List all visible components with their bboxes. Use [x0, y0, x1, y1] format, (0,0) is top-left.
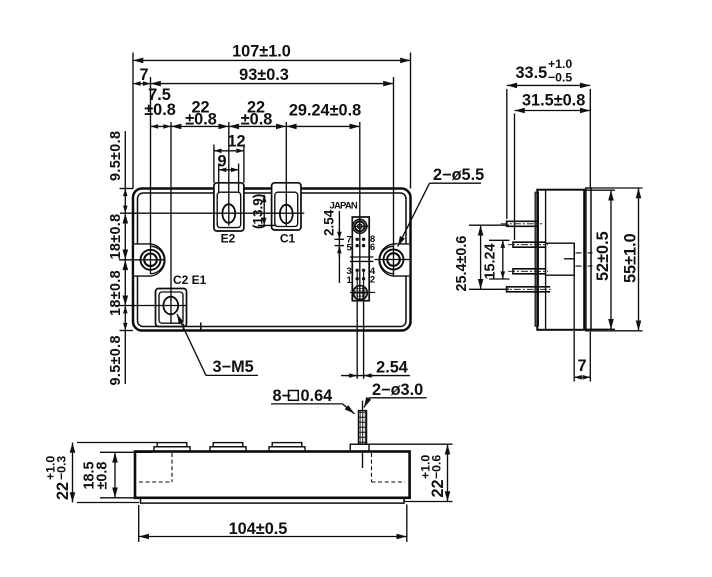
callout 2-dia3.0	[364, 381, 427, 408]
side view case inner wall	[545, 190, 547, 330]
side view pin row D	[501, 287, 552, 292]
svg-text:52±0.5: 52±0.5	[594, 231, 612, 281]
dim 33.5	[507, 57, 591, 219]
svg-text:2−ø3.0: 2−ø3.0	[372, 381, 423, 399]
dim 18.5	[82, 452, 153, 498]
svg-text:2.54: 2.54	[376, 359, 408, 377]
svg-text:107±1.0: 107±1.0	[232, 43, 291, 61]
side view pin row C	[508, 269, 548, 274]
dim 2.54 connector	[322, 209, 345, 283]
svg-text:9.5±0.8: 9.5±0.8	[108, 131, 124, 181]
svg-text:18±0.8: 18±0.8	[108, 270, 124, 316]
dim 9	[217, 153, 238, 193]
svg-text:55±1.0: 55±1.0	[622, 233, 640, 283]
dim 31.5	[515, 92, 591, 241]
connector separator lines	[350, 257, 374, 261]
connector pins dots	[356, 238, 366, 281]
svg-text:29.24±0.8: 29.24±0.8	[289, 102, 361, 120]
connector guide pin hole bottom	[350, 286, 375, 300]
svg-text:3−M5: 3−M5	[213, 358, 254, 376]
dim 107	[133, 43, 411, 61]
side view center dashes	[576, 253, 593, 266]
svg-text:25.4±0.6: 25.4±0.6	[454, 236, 470, 292]
connector housing front	[352, 217, 369, 301]
callout 2-dia5.5	[398, 166, 484, 247]
mounting boss left	[134, 244, 165, 276]
side view connector housing	[546, 243, 575, 275]
svg-text:C2 E1: C2 E1	[173, 273, 207, 287]
bottom view guide pin hatched	[358, 401, 366, 444]
svg-text:93±0.3: 93±0.3	[239, 66, 289, 84]
bottom view body	[135, 452, 410, 498]
side view pin row B	[508, 242, 548, 247]
svg-text:0.64: 0.64	[301, 387, 333, 405]
svg-text:5: 5	[347, 242, 353, 253]
screw center line E2 C1	[120, 212, 304, 214]
bottom view baseplate	[141, 498, 405, 503]
extension line hole right center	[393, 77, 395, 276]
svg-text:18±0.8: 18±0.8	[108, 213, 124, 259]
svg-text:6: 6	[370, 242, 375, 253]
pin numbers	[347, 234, 376, 286]
dim 55	[591, 188, 643, 331]
svg-text:±0.8: ±0.8	[144, 101, 176, 119]
front view module outline outer	[133, 189, 411, 331]
bottom view hidden insert left	[139, 453, 172, 482]
svg-text:−0.6: −0.6	[430, 455, 444, 479]
screw C1	[280, 205, 293, 224]
svg-text:33.5: 33.5	[516, 64, 548, 82]
dim 22 right	[369, 444, 453, 501]
dim 104	[139, 505, 407, 543]
dim 7 top left	[133, 66, 151, 84]
svg-text:2−ø5.5: 2−ø5.5	[433, 166, 484, 184]
dim 22 left	[44, 443, 158, 503]
svg-text:22: 22	[429, 479, 447, 497]
terminal E2	[214, 183, 244, 231]
extension line module left edge	[132, 53, 134, 189]
svg-text:C1: C1	[280, 232, 296, 246]
screw E2	[222, 204, 235, 223]
terminal C2 E1	[119, 289, 201, 331]
extension line connector center	[359, 122, 361, 300]
extension line module right edge	[410, 53, 412, 189]
dim chain left 9.5 18 18 9.5	[120, 131, 134, 384]
svg-text:15.24: 15.24	[483, 243, 499, 279]
mounting hole left	[119, 250, 165, 270]
svg-text:12: 12	[227, 133, 245, 151]
bottom view terminal bump 3	[269, 443, 305, 452]
svg-text:(13.9): (13.9)	[251, 194, 266, 229]
svg-text:±0.8: ±0.8	[95, 462, 111, 490]
bottom view pin header block	[350, 444, 369, 451]
svg-text:1: 1	[347, 275, 353, 286]
side view baseplate	[586, 188, 591, 331]
dim 7 side	[574, 331, 590, 382]
side view inner line right	[573, 243, 575, 329]
side view case lip	[535, 192, 538, 326]
dim 25.4	[454, 225, 509, 291]
extension line E2 center	[228, 122, 230, 226]
extension line C2E1 center	[170, 122, 172, 323]
side view pin row A	[501, 221, 542, 226]
svg-text:±0.8: ±0.8	[241, 110, 273, 128]
bottom view terminal bump 1	[154, 443, 190, 452]
svg-text:31.5±0.8: 31.5±0.8	[522, 92, 585, 110]
mounting hole right	[375, 250, 411, 270]
extension line hole left center	[150, 77, 152, 274]
pin extension lines below module	[357, 301, 363, 379]
extension line C1 center	[285, 122, 287, 226]
connector top rivet	[352, 219, 369, 233]
dim 12	[214, 133, 246, 183]
svg-text:22: 22	[54, 482, 72, 500]
terminal C1	[272, 183, 301, 230]
svg-text:−0.3: −0.3	[55, 456, 69, 480]
side view case	[537, 190, 584, 330]
bottom view terminal bump 2	[210, 443, 246, 452]
bottom view hidden insert right	[372, 453, 406, 482]
svg-text:9: 9	[217, 153, 226, 171]
svg-text:104±0.5: 104±0.5	[229, 520, 288, 538]
dim 15.24	[483, 240, 510, 279]
callout 3-M5	[177, 314, 258, 376]
svg-text:E2: E2	[221, 232, 236, 246]
mounting boss right	[379, 244, 409, 276]
dim 52	[585, 190, 615, 329]
svg-text:−0.5: −0.5	[548, 71, 572, 85]
front view module outline inner	[138, 193, 407, 327]
svg-text:7: 7	[139, 66, 148, 84]
svg-text:9.5±0.8: 9.5±0.8	[108, 335, 124, 385]
svg-text:7: 7	[577, 357, 586, 375]
dim chain 7.5 / 22 / 22 / 29.24	[151, 125, 360, 127]
dim 93	[151, 66, 394, 84]
dim (13.9)	[251, 194, 277, 229]
dim 2.54 bottom	[341, 359, 410, 377]
callout 8-sq0.64	[271, 387, 355, 414]
connector pin columns	[357, 272, 363, 301]
svg-text:+1.0: +1.0	[548, 57, 572, 71]
svg-text:±0.8: ±0.8	[185, 110, 217, 128]
svg-text:2.54: 2.54	[322, 209, 337, 236]
svg-text:2: 2	[370, 275, 375, 286]
